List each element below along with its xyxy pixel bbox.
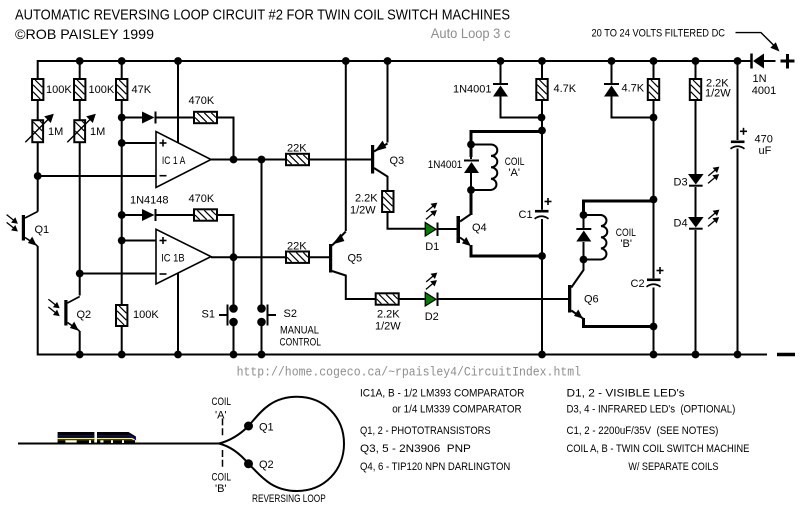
svg-text:22K: 22K (287, 143, 307, 155)
svg-text:1/2W: 1/2W (350, 205, 376, 217)
svg-text:D3, 4 - INFRARED LED's (OPTIO: D3, 4 - INFRARED LED's (OPTIONAL) (567, 404, 736, 416)
svg-text:AUTOMATIC REVERSING LOOP CI: AUTOMATIC REVERSING LOOP CIRCUIT #2 FOR … (15, 7, 510, 24)
svg-text:COIL A, B - TWIN COIL SWITCH M: COIL A, B - TWIN COIL SWITCH MACHINE (567, 443, 750, 455)
svg-text:470: 470 (755, 134, 773, 146)
svg-text:Auto Loop 3 c: Auto Loop 3 c (431, 25, 511, 41)
svg-text:D1: D1 (425, 241, 439, 253)
svg-text:C1, 2 - 2200uF/35V (SEE NOTES: C1, 2 - 2200uF/35V (SEE NOTES) (567, 425, 719, 437)
svg-text:IC 1 A: IC 1 A (162, 155, 186, 167)
svg-text:Q1, 2 - PHOTOTRANSISTORS: Q1, 2 - PHOTOTRANSISTORS (360, 425, 491, 437)
svg-text:W/ SEPARATE COILS: W/ SEPARATE COILS (628, 461, 718, 473)
svg-text:Q1: Q1 (259, 422, 274, 434)
svg-text:uF: uF (759, 145, 772, 157)
svg-text:Q1: Q1 (35, 224, 50, 236)
svg-text:'B': 'B' (620, 238, 632, 250)
svg-text:D3: D3 (674, 176, 688, 188)
svg-text:C2: C2 (631, 278, 645, 290)
svg-text:REVERSING LOOP: REVERSING LOOP (252, 493, 326, 505)
svg-text:20 TO 24 VOLTS FILTERED DC: 20 TO 24 VOLTS FILTERED DC (592, 28, 726, 40)
svg-text:1/2W: 1/2W (705, 88, 731, 100)
svg-text:http://home.cogeco.ca/~rpaisle: http://home.cogeco.ca/~rpaisley4/Circuit… (237, 366, 581, 380)
svg-text:IC 1B: IC 1B (161, 253, 185, 265)
svg-text:1/2W: 1/2W (375, 321, 401, 333)
svg-text:Q3: Q3 (390, 155, 405, 167)
svg-text:'B': 'B' (215, 483, 227, 495)
svg-text:COIL: COIL (212, 472, 232, 484)
svg-text:COIL: COIL (212, 396, 232, 408)
svg-text:IC1A, B - 1/2 LM393 COMPARATOR: IC1A, B - 1/2 LM393 COMPARATOR (360, 388, 524, 400)
svg-text:1N4001: 1N4001 (453, 84, 492, 96)
svg-text:4001: 4001 (752, 85, 776, 97)
svg-text:100K: 100K (89, 84, 115, 96)
svg-text:2.2K: 2.2K (355, 193, 378, 205)
svg-text:Q3, 5 - 2N3906 PNP: Q3, 5 - 2N3906 PNP (360, 443, 471, 455)
svg-text:'A': 'A' (215, 410, 227, 422)
svg-text:100K: 100K (46, 84, 72, 96)
svg-text:22K: 22K (287, 241, 307, 253)
svg-text:1N4001: 1N4001 (428, 159, 463, 171)
svg-text:or 1/4 LM339 COMPARATOR: or 1/4 LM339 COMPARATOR (392, 404, 521, 416)
svg-text:1N: 1N (753, 73, 767, 85)
svg-text:C1: C1 (519, 209, 533, 221)
svg-text:Q2: Q2 (77, 309, 92, 321)
svg-text:S1: S1 (202, 309, 215, 321)
svg-text:MANUAL: MANUAL (280, 325, 319, 337)
svg-text:Q2: Q2 (259, 459, 274, 471)
svg-text:Q4: Q4 (472, 222, 487, 234)
svg-text:D1, 2 - VISIBLE LED's: D1, 2 - VISIBLE LED's (567, 388, 686, 400)
svg-text:4.7K: 4.7K (554, 83, 577, 95)
svg-text:Q5: Q5 (348, 253, 363, 265)
svg-text:1N4148: 1N4148 (130, 195, 169, 207)
svg-text:D4: D4 (674, 218, 688, 230)
svg-text:1M: 1M (90, 126, 105, 138)
svg-text:CONTROL: CONTROL (280, 337, 322, 349)
svg-text:2.2K: 2.2K (377, 309, 400, 321)
svg-text:4.7K: 4.7K (622, 83, 645, 95)
svg-text:'A': 'A' (508, 167, 520, 179)
svg-text:D2: D2 (425, 311, 439, 323)
svg-text:Q4, 6 - TIP120 NPN DARLINGTON: Q4, 6 - TIP120 NPN DARLINGTON (360, 461, 510, 473)
svg-text:470K: 470K (189, 193, 215, 205)
svg-text:Q6: Q6 (584, 294, 599, 306)
svg-text:47K: 47K (132, 84, 152, 96)
svg-text:470K: 470K (189, 95, 215, 107)
svg-text:100K: 100K (133, 309, 159, 321)
svg-text:©ROB PAISLEY 1999: ©ROB PAISLEY 1999 (15, 26, 154, 42)
svg-text:S2: S2 (284, 308, 297, 320)
svg-text:1M: 1M (48, 126, 63, 138)
